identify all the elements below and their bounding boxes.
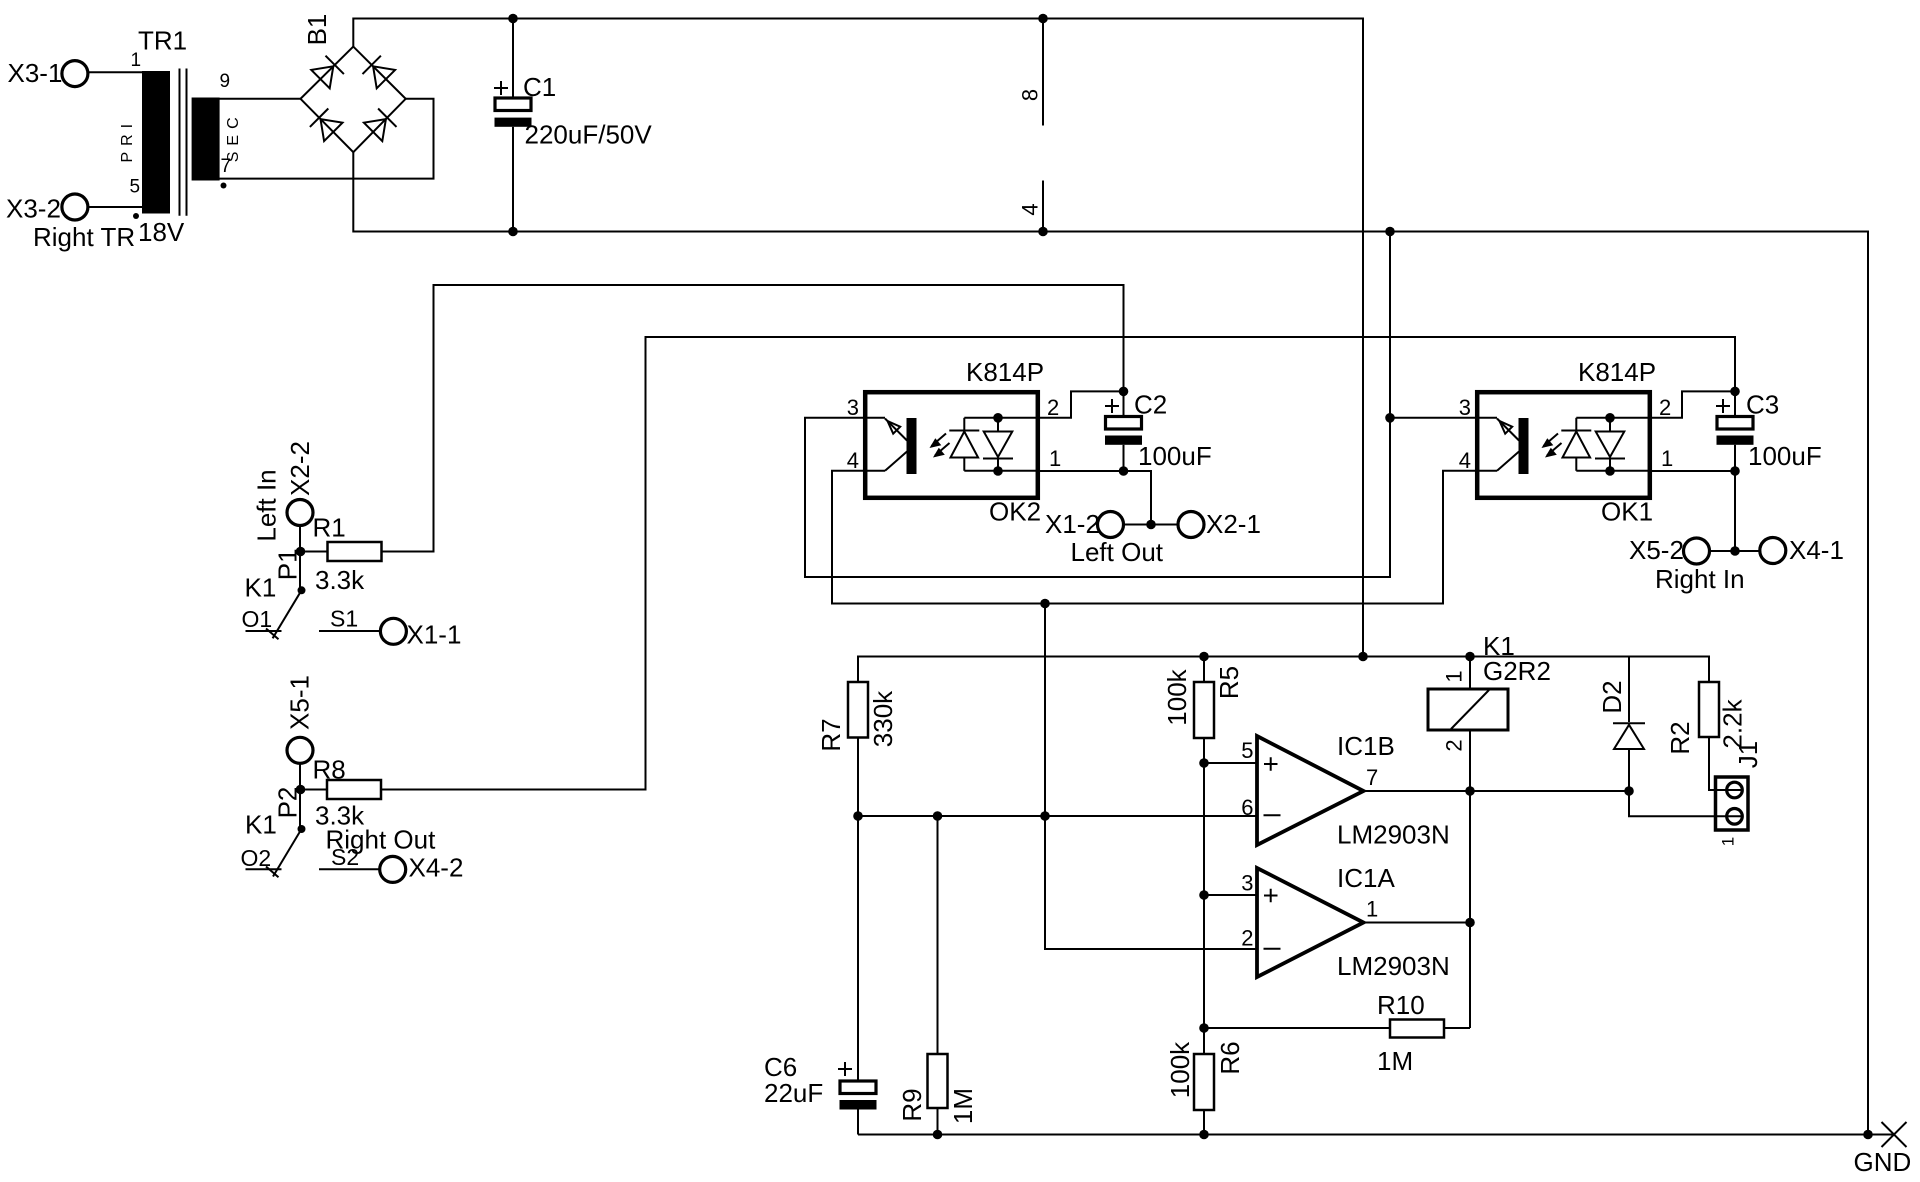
svg-text:220uF/50V: 220uF/50V <box>525 120 653 150</box>
svg-text:R5: R5 <box>1214 666 1244 699</box>
svg-text:TR1: TR1 <box>138 26 187 56</box>
svg-text:OK1: OK1 <box>1601 497 1653 527</box>
svg-text:PRI: PRI <box>119 118 136 163</box>
wire TR1 pin 9 to bridge <box>220 98 301 100</box>
switch K1 P2 <box>241 787 360 878</box>
transformer TR1 <box>119 26 242 248</box>
svg-text:1: 1 <box>1442 670 1467 682</box>
junction IC1A out <box>1465 918 1475 928</box>
junction R9 bottom rail <box>933 1130 943 1140</box>
wire bottom ground rail <box>858 1134 1868 1136</box>
switch K1 P1 <box>242 548 359 639</box>
junction top rail x1363 end <box>1358 652 1368 662</box>
diode D2 <box>1597 657 1645 792</box>
capacitor C3 <box>1716 390 1822 472</box>
junction Left Out <box>1146 520 1156 530</box>
junction rail R5 <box>1199 652 1209 662</box>
svg-text:GND: GND <box>1854 1147 1912 1177</box>
svg-text:R1: R1 <box>313 513 346 543</box>
wire OK1 pin1 to Right In <box>1650 471 1735 551</box>
junction D2 bottom <box>1624 786 1634 796</box>
junction R6 bottom rail <box>1199 1130 1209 1140</box>
diode B1 bottom-left <box>310 109 343 142</box>
svg-text:5: 5 <box>1241 738 1253 763</box>
junction C3 bottom <box>1730 466 1740 476</box>
svg-text:X5-1: X5-1 <box>285 675 315 730</box>
wire R1 to C2 node <box>382 285 1124 552</box>
svg-text:R2: R2 <box>1665 721 1695 754</box>
svg-text:OK2: OK2 <box>989 497 1041 527</box>
wire X3-2 to TR1 pin 5 <box>88 206 142 208</box>
svg-text:2: 2 <box>1047 395 1059 420</box>
junction y816 C6 <box>853 811 863 821</box>
svg-text:R9: R9 <box>897 1088 927 1121</box>
terminal X3-1 <box>8 58 88 88</box>
svg-text:O2: O2 <box>241 845 272 871</box>
terminal X3-2 <box>6 194 88 224</box>
wire node to R1 <box>301 551 328 553</box>
wire IC top rail <box>858 657 1709 683</box>
wire reference divider vertical <box>1203 738 1205 1054</box>
svg-text:R10: R10 <box>1377 990 1425 1020</box>
wire y816 net <box>858 815 1257 817</box>
wire relay pin2 down to R10 <box>1469 730 1471 1028</box>
junction y816 R9 <box>933 811 943 821</box>
wire IC1A output <box>1364 922 1471 924</box>
svg-text:1: 1 <box>1366 897 1378 922</box>
junction OK1 pin3 <box>1385 413 1395 423</box>
wire R5 top <box>1203 657 1205 683</box>
svg-text:8: 8 <box>1018 89 1043 101</box>
wire X5-2 to X4-1 <box>1710 550 1760 552</box>
optocoupler OK1 <box>1459 357 1674 527</box>
junction rail relay <box>1465 652 1475 662</box>
wire OK2 pin1 to Left Out <box>1039 471 1151 525</box>
svg-text:C2: C2 <box>1134 390 1167 420</box>
wire R2 bottom to J1 <box>1709 737 1744 790</box>
svg-text:X3-2: X3-2 <box>6 194 61 224</box>
resistor R5 <box>1162 666 1244 738</box>
svg-text:100uF: 100uF <box>1748 441 1822 471</box>
svg-text:B1: B1 <box>302 14 332 46</box>
svg-text:Right TR: Right TR <box>33 222 135 252</box>
junction bottom rail x1390 <box>1385 227 1395 237</box>
svg-text:P2: P2 <box>273 787 303 819</box>
svg-text:C3: C3 <box>1746 390 1779 420</box>
resistor R7 <box>816 682 898 752</box>
wire R8 to C3 node <box>381 337 1735 790</box>
svg-text:R8: R8 <box>313 755 346 785</box>
junction C2 bottom <box>1119 466 1129 476</box>
junction bottom rail pin4 <box>1038 227 1048 237</box>
wire R9 bottom <box>937 1108 939 1135</box>
relay coil K1 <box>1428 631 1551 752</box>
svg-text:2: 2 <box>1241 926 1253 951</box>
wire X1-2 to X2-1 <box>1124 524 1178 526</box>
svg-text:X3-1: X3-1 <box>8 58 63 88</box>
svg-text:IC1A: IC1A <box>1337 863 1395 893</box>
svg-text:Right Out: Right Out <box>326 825 437 855</box>
wire relay pin1 <box>1469 657 1471 690</box>
svg-text:SEC: SEC <box>225 111 242 162</box>
svg-text:X2-1: X2-1 <box>1206 509 1261 539</box>
terminal X4-1 <box>1760 535 1844 565</box>
wire X2-2 down to node P1 <box>299 526 301 591</box>
connector J1 <box>1716 741 1764 846</box>
svg-text:K814P: K814P <box>1578 357 1656 387</box>
svg-text:22uF: 22uF <box>764 1078 823 1108</box>
svg-text:1: 1 <box>1719 837 1738 846</box>
junction node P2 <box>296 785 306 795</box>
svg-text:X4-1: X4-1 <box>1789 535 1844 565</box>
svg-text:1: 1 <box>131 50 142 71</box>
svg-text:D2: D2 <box>1597 680 1627 713</box>
junction pin5 <box>1199 758 1209 768</box>
wire top positive rail <box>353 19 1363 657</box>
wire OK1 pin2 jog to C3 node <box>1650 391 1735 417</box>
svg-text:4: 4 <box>1018 203 1043 215</box>
capacitor C2 <box>1105 390 1212 472</box>
svg-text:IC1B: IC1B <box>1337 731 1395 761</box>
svg-text:18V: 18V <box>138 217 185 247</box>
wire bottom rail to GND <box>353 152 1894 1134</box>
wire TR1 pin 7 to bridge <box>220 99 434 179</box>
wire R6 bottom <box>1203 1110 1205 1135</box>
svg-text:Left Out: Left Out <box>1071 537 1164 567</box>
svg-text:O1: O1 <box>242 606 273 632</box>
optocoupler OK2 <box>847 357 1062 527</box>
svg-text:C1: C1 <box>523 72 556 102</box>
wire X3-1 to TR1 pin 1 <box>88 71 142 73</box>
junction inverting net at y816 <box>1040 811 1050 821</box>
wire X5-1 down to node P2 <box>299 763 301 829</box>
terminal X2-2 Left In <box>252 441 316 542</box>
terminal X4-2 <box>380 853 464 883</box>
svg-text:1: 1 <box>1661 446 1673 471</box>
capacitor C6 <box>764 816 877 1135</box>
svg-text:P1: P1 <box>273 548 303 580</box>
diode B1 top-left <box>311 56 344 89</box>
junction R10 left <box>1199 1023 1209 1033</box>
junction C3 top node <box>1730 387 1740 397</box>
svg-text:S1: S1 <box>330 606 358 632</box>
op-amp IC1A <box>1241 863 1449 981</box>
svg-text:X2-2: X2-2 <box>285 441 315 496</box>
wire R10 left <box>1204 1027 1390 1029</box>
capacitor C1 <box>494 19 652 232</box>
junction top rail pin8 <box>1038 14 1048 24</box>
wire OK2 pin2 jog to C2 node <box>1039 391 1124 417</box>
resistor R8 <box>313 755 382 831</box>
svg-text:1M: 1M <box>948 1088 978 1124</box>
svg-text:R6: R6 <box>1215 1041 1245 1074</box>
resistor R2 <box>1665 682 1748 755</box>
terminal X1-1 <box>380 618 461 649</box>
terminal X5-2 <box>1629 535 1710 565</box>
resistor R9 <box>897 1054 978 1124</box>
svg-text:3.3k: 3.3k <box>315 565 365 595</box>
terminal X2-1 <box>1178 509 1261 539</box>
wire S2 to X4-2 <box>336 868 380 870</box>
svg-text:J1: J1 <box>1733 741 1763 768</box>
svg-text:Left In: Left In <box>252 469 282 541</box>
wire R10 right <box>1444 1027 1470 1029</box>
junction pin3 <box>1199 890 1209 900</box>
svg-text:2: 2 <box>1659 395 1671 420</box>
diode B1 top-right <box>363 56 396 89</box>
svg-text:6: 6 <box>1241 795 1253 820</box>
svg-text:X1-1: X1-1 <box>407 620 462 650</box>
svg-text:3: 3 <box>1241 871 1253 896</box>
svg-text:9: 9 <box>220 71 231 92</box>
wire output rail to D2 and J1 <box>1470 791 1744 816</box>
svg-text:Right In: Right In <box>1655 564 1745 594</box>
resistor R10 <box>1377 990 1444 1076</box>
wire OK1 pin3 tap <box>1390 417 1476 419</box>
wire R9 top <box>937 816 939 1054</box>
relay contact pin 4 stub <box>1018 181 1044 232</box>
svg-text:5: 5 <box>130 177 141 198</box>
wire R7 bottom <box>857 738 859 817</box>
junction Right In <box>1730 546 1740 556</box>
wire node to R8 <box>301 789 328 791</box>
junction GND rail <box>1863 1130 1873 1140</box>
resistor R6 <box>1165 1041 1245 1110</box>
wire IC1B output <box>1364 790 1471 792</box>
diode B1 bottom-right <box>364 109 397 142</box>
wire pin5 to IC1B <box>1204 762 1257 764</box>
svg-text:100k: 100k <box>1165 1041 1195 1098</box>
op-amp IC1B <box>1241 731 1449 850</box>
svg-text:3: 3 <box>1459 395 1471 420</box>
svg-text:330k: 330k <box>868 690 898 747</box>
wire net pin3s: bottom rail to OK2 pin3 and OK1 pin3 <box>805 232 1390 578</box>
bridge rectifier B1 <box>301 14 406 153</box>
svg-text:4: 4 <box>847 448 859 473</box>
svg-text:LM2903N: LM2903N <box>1337 951 1450 981</box>
svg-text:4: 4 <box>1459 448 1471 473</box>
wire net pin4s: OK2 pin4 to OK1 pin4 <box>832 471 1476 604</box>
relay contact pin 8 stub <box>1018 19 1044 126</box>
svg-text:7: 7 <box>1366 765 1378 790</box>
svg-text:100uF: 100uF <box>1138 441 1212 471</box>
svg-text:G2R2: G2R2 <box>1483 656 1551 686</box>
resistor R1 <box>313 513 382 596</box>
ground GND <box>1854 1122 1912 1177</box>
svg-text:K814P: K814P <box>966 357 1044 387</box>
wire pin3 to IC1A <box>1204 894 1257 896</box>
terminal X1-2 <box>1045 509 1124 539</box>
svg-text:1M: 1M <box>1377 1046 1413 1076</box>
svg-text:X5-2: X5-2 <box>1629 535 1684 565</box>
svg-text:R7: R7 <box>816 718 846 751</box>
junction pin4 net tap <box>1040 599 1050 609</box>
junction C2 top node <box>1119 387 1129 397</box>
junction node P1 <box>296 547 306 557</box>
junction C1 top <box>508 14 518 24</box>
svg-text:X4-2: X4-2 <box>409 853 464 883</box>
svg-text:X1-2: X1-2 <box>1045 509 1100 539</box>
wire S1 to X1-1 <box>336 630 381 632</box>
svg-text:2: 2 <box>1442 739 1467 751</box>
junction C1 bottom <box>508 227 518 237</box>
svg-text:1: 1 <box>1049 446 1061 471</box>
terminal X5-1 <box>285 675 315 763</box>
svg-text:3: 3 <box>847 395 859 420</box>
svg-text:LM2903N: LM2903N <box>1337 820 1450 850</box>
svg-text:100k: 100k <box>1162 668 1192 725</box>
wire inverting input net vertical <box>1045 604 1257 950</box>
junction IC1B out relay <box>1465 786 1475 796</box>
